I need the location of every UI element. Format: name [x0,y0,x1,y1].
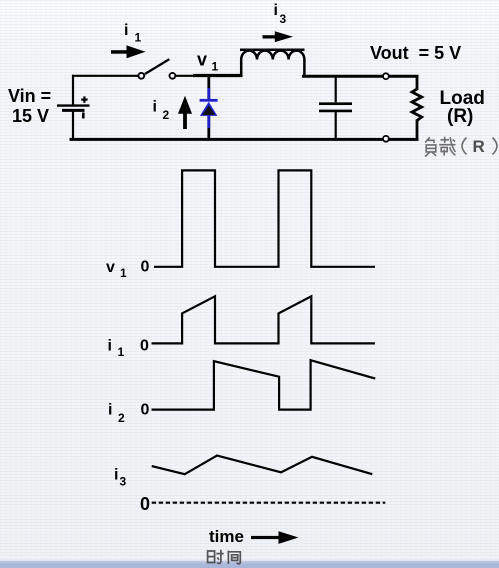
label i1 [124,22,142,45]
svg-text:i: i [114,467,118,484]
svg-text:0: 0 [140,338,149,355]
waveform v1: axis label [106,259,150,281]
label i2 [153,99,170,123]
battery Vin [57,96,90,139]
svg-text:1: 1 [212,60,219,74]
current arrow i2 [178,96,192,129]
capacitor C1 [319,77,352,139]
label Load (R) [440,88,485,127]
svg-text:3: 3 [280,12,287,26]
svg-text:i: i [108,402,112,419]
svg-text:0: 0 [141,259,150,276]
waveform i1: axis label [108,338,150,360]
waveform i3 trace (inductor current triangle) [152,456,373,475]
svg-text:2: 2 [163,108,170,122]
wire: switch to v1 node [175,74,242,77]
diode D1 (blue freewheel diode) [200,76,218,139]
waveform i2 trace (diode current) [152,360,376,409]
inductor L1 [240,50,305,77]
output terminal top [383,73,389,79]
svg-text:1: 1 [135,31,142,45]
svg-text:v: v [106,259,115,276]
svg-text:3: 3 [120,475,127,489]
svg-text:15 V: 15 V [12,106,49,126]
svg-text:i: i [124,22,128,39]
svg-text:Vin =: Vin = [8,86,51,106]
label i3 [274,2,287,26]
svg-text:v: v [197,50,207,70]
svg-text:1: 1 [118,345,125,359]
bottom footer strip light [0,557,499,561]
switch S1 [138,59,175,79]
label Vin = 15 V [8,86,51,126]
svg-text:(R): (R) [447,106,473,127]
current arrow i1 [111,45,146,58]
svg-text:time: time [209,527,244,546]
wire: inductor to output node [302,75,419,78]
bottom footer strip blue [0,561,499,568]
svg-text:i: i [153,99,157,116]
label 负载（R） (gray chinese: load R) [425,137,497,157]
waveform i2: axis label [108,402,150,426]
svg-text:i: i [108,338,112,355]
current arrow i3 [263,31,294,42]
time axis arrow [251,531,299,544]
svg-text:2: 2 [118,411,125,425]
waveform i3 zero dashed line [152,502,386,504]
output terminal bottom [383,136,389,142]
svg-text:Vout = 5 V: Vout = 5 V [370,43,461,63]
label 时间 (gray chinese: time) [208,550,241,564]
svg-text:0: 0 [140,494,150,514]
wire: battery positive to switch (top-left rail) [73,75,138,105]
resistor Load R [412,77,422,139]
waveform i3: axis label [114,467,150,514]
waveform v1 trace (square pulses) [154,170,375,266]
label v1 (node voltage) [197,50,219,74]
wire: bottom rail [70,138,419,141]
svg-text:R: R [473,137,485,156]
svg-text:i: i [274,2,278,19]
svg-text:1: 1 [120,266,127,280]
waveform i1 trace (switch current) [152,296,375,343]
svg-text:0: 0 [141,402,150,419]
